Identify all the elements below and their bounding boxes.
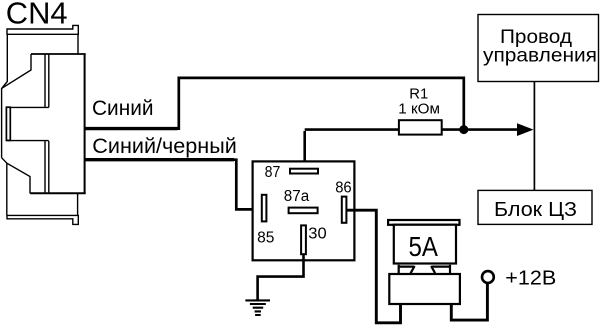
svg-text:30: 30	[308, 225, 327, 242]
svg-text:85: 85	[257, 230, 274, 247]
svg-text:87a: 87a	[284, 188, 310, 205]
svg-text:Синий: Синий	[92, 97, 154, 120]
svg-text:5A: 5A	[409, 231, 439, 262]
svg-text:Блок ЦЗ: Блок ЦЗ	[494, 198, 577, 221]
svg-text:87: 87	[265, 164, 281, 181]
svg-text:управления: управления	[483, 45, 597, 67]
svg-text:86: 86	[335, 179, 352, 196]
svg-text:+12В: +12В	[505, 266, 556, 289]
svg-text:1 кОм: 1 кОм	[398, 101, 440, 118]
svg-text:Синий/черный: Синий/черный	[92, 135, 237, 158]
svg-text:CN4: CN4	[6, 0, 68, 30]
